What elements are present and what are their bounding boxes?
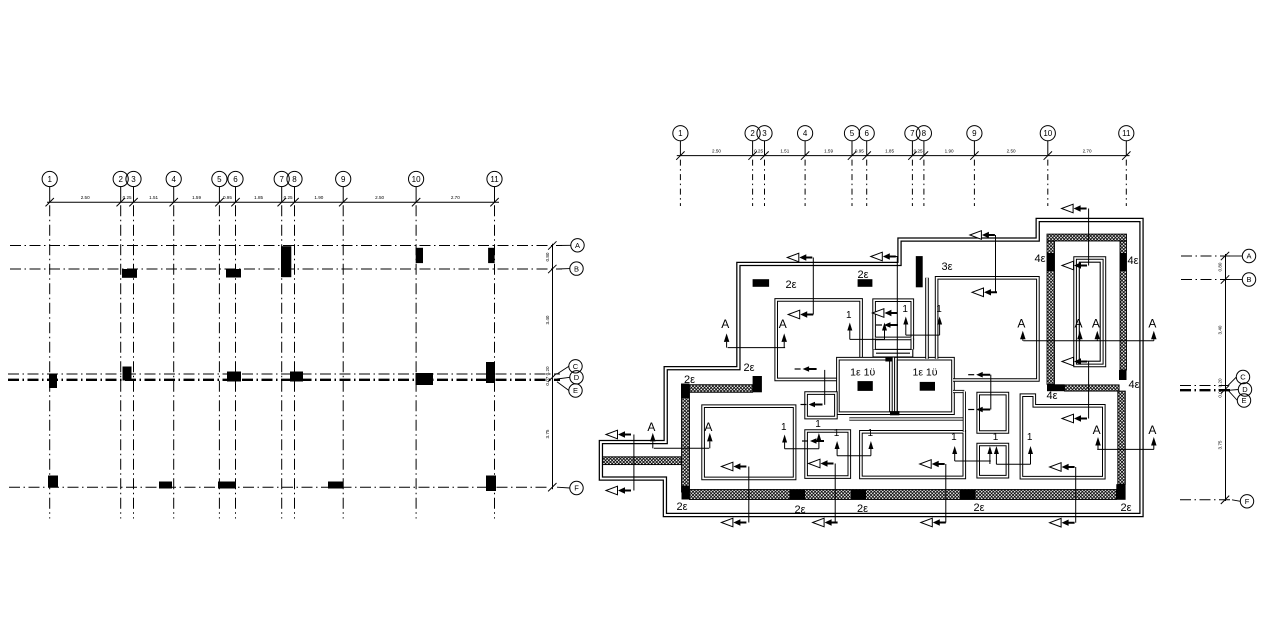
svg-text:3: 3 [762, 129, 767, 138]
wall small upper room (floor plan) [806, 393, 836, 418]
grid axis circle 2 (left plan) [113, 171, 128, 186]
grid axis circle 2 (floor plan) [745, 126, 760, 141]
section arrow stair bottom (floor plan) [1062, 357, 1074, 366]
svg-text:2.70: 2.70 [451, 195, 460, 200]
wall stacked room upper (floor plan) [978, 394, 1007, 432]
hatched wall stair bottom (floor plan) [1065, 385, 1120, 391]
svg-text:6: 6 [864, 129, 869, 138]
svg-text:1ε 1ϋ: 1ε 1ϋ [850, 367, 875, 379]
grid stub axis 3 (floor plan) [764, 160, 766, 206]
door up arrow extra (floor plan) [882, 323, 887, 331]
dimension tick axis 6 (left plan) [231, 198, 239, 206]
column axis2/3 row CDE (left plan) [123, 367, 132, 381]
column axis11 row CDE (left plan) [486, 362, 495, 383]
svg-text:0.95: 0.95 [855, 149, 864, 154]
svg-text:B: B [574, 264, 579, 273]
svg-text:2ε: 2ε [973, 502, 984, 514]
door arrow small a (floor plan) [803, 366, 817, 372]
svg-text:1: 1 [868, 428, 874, 439]
svg-text:1.85: 1.85 [254, 195, 263, 200]
door arrow small b (floor plan) [809, 402, 823, 408]
svg-text:D: D [1242, 385, 1248, 394]
dimension tick axis 6 (floor plan) [863, 151, 871, 159]
svg-text:1: 1 [781, 422, 787, 433]
section arrow stair top (floor plan) [1062, 261, 1074, 270]
grid axis circle 1 (floor plan) [673, 126, 688, 141]
grid axis circle 9 (left plan) [336, 171, 351, 186]
svg-text:1: 1 [902, 304, 908, 315]
hatched wall stair top (floor plan) [1047, 234, 1127, 241]
section line a1-a2 (floor plan) [812, 258, 814, 315]
door arrow small c (floor plan) [976, 372, 990, 378]
section arrow top step (floor plan) [871, 252, 883, 261]
svg-text:A: A [1093, 423, 1101, 437]
grid axis circle 4 (left plan) [166, 171, 181, 186]
section arrow below plan right (floor plan) [1050, 518, 1062, 527]
wall core stub left (floor plan) [872, 338, 876, 349]
svg-text:1.90: 1.90 [945, 149, 954, 154]
wall middle room (floor plan) [861, 432, 964, 478]
svg-text:5: 5 [217, 175, 222, 184]
svg-text:2ε: 2ε [676, 501, 687, 513]
grid axis circle 8 (floor plan) [916, 126, 931, 141]
wall big right room (floor plan) [937, 278, 1038, 380]
column axis4 row F (left plan) [159, 482, 172, 489]
svg-text:A: A [1246, 252, 1251, 261]
svg-text:A: A [1148, 423, 1156, 437]
svg-text:4: 4 [803, 129, 808, 138]
svg-text:2ε: 2ε [743, 362, 754, 374]
grid line D horizontal (left plan) [8, 379, 560, 381]
svg-text:1: 1 [936, 304, 942, 315]
hatched wall vertical left (floor plan) [682, 392, 690, 492]
section line stub (floor plan) [633, 435, 635, 491]
svg-text:1: 1 [815, 419, 821, 430]
column bottom band 2 (floor plan) [851, 490, 866, 500]
svg-text:5: 5 [850, 129, 855, 138]
grid row circle F (left plan) [557, 486, 570, 489]
column axis11 row A (left plan) [488, 248, 495, 263]
grid axis circle 10 (left plan) [409, 171, 424, 186]
grid axis circle 7 (left plan) [274, 171, 289, 186]
section A-A group stub (floor plan) [647, 420, 712, 448]
dimension tick axis 5 (left plan) [215, 198, 223, 206]
grid stub axis 7 (floor plan) [911, 160, 913, 206]
grid row circle E (floor plan) [1228, 390, 1237, 400]
svg-text:A: A [1017, 317, 1025, 331]
dimension tick axis 3 (left plan) [129, 198, 137, 206]
section line stair upper (floor plan) [1088, 209, 1090, 266]
grid line axis 2 vertical (left plan) [120, 205, 122, 518]
section arrow below plan left (floor plan) [721, 518, 733, 527]
grid line F horizontal (left plan) [9, 486, 549, 488]
column axis1 row CDE (left plan) [49, 374, 57, 388]
column axis11 row F (left plan) [486, 476, 496, 492]
svg-text:3ε: 3ε [941, 261, 952, 273]
wall bottom-right room (floor plan) [1021, 395, 1103, 478]
svg-text:0.07 0.20: 0.07 0.20 [1218, 378, 1223, 398]
svg-text:F: F [574, 484, 579, 493]
column axis7/8 rows A-B (left plan) [281, 246, 291, 277]
dimension tick axis 2 (left plan) [117, 198, 125, 206]
grid axis circle 1 (left plan) [42, 171, 57, 186]
wall bath room right 1 (floor plan) [896, 359, 953, 414]
grid stub axis 1 (floor plan) [679, 160, 681, 206]
svg-text:2ε: 2ε [794, 504, 805, 516]
svg-text:7: 7 [279, 175, 284, 184]
column bottom band 1 (floor plan) [790, 490, 805, 500]
column axis1 row F (left plan) [48, 476, 58, 488]
grid line A horizontal (left plan) [10, 245, 562, 247]
door line upper b (floor plan) [906, 334, 940, 336]
grid axis circle 7 (floor plan) [905, 126, 920, 141]
dimension tick (left plan right dim) [548, 265, 556, 273]
column axis2/3 row B (left plan) [122, 269, 137, 278]
section arrow above top wall left (floor plan) [787, 253, 799, 262]
grid line axis 3 vertical (left plan) [133, 205, 135, 518]
section arrow 3e corridor lower (floor plan) [972, 288, 984, 297]
svg-text:2.50: 2.50 [712, 149, 721, 154]
column axis9 row F (left plan) [328, 482, 343, 489]
section A-A group upper-left (floor plan) [721, 317, 787, 348]
svg-text:9: 9 [972, 129, 977, 138]
svg-text:6: 6 [233, 175, 238, 184]
column 3e tall (floor plan) [916, 256, 923, 287]
section arrow middle room (floor plan) [920, 460, 932, 469]
svg-text:3: 3 [131, 175, 136, 184]
svg-text:A: A [575, 241, 580, 250]
svg-text:10: 10 [1043, 129, 1052, 138]
grid row circle A (left plan) [557, 244, 571, 246]
grid axis circle 10 (floor plan) [1040, 126, 1055, 141]
door line low b (floor plan) [837, 455, 871, 457]
grid row circle B (left plan) [557, 268, 570, 270]
column 2e upper-left (floor plan) [753, 279, 770, 287]
column axis5 row F (left plan) [218, 482, 235, 489]
door line low d (floor plan) [955, 460, 991, 462]
svg-text:1ε 1ϋ: 1ε 1ϋ [912, 367, 937, 379]
door line upper a (floor plan) [850, 338, 885, 340]
section A-A group bottom-right (floor plan) [1093, 423, 1157, 449]
column bottom-right corner (floor plan) [1116, 484, 1125, 500]
svg-text:3.40: 3.40 [545, 315, 550, 324]
wall bath room left 1 (floor plan) [838, 359, 891, 414]
grid axis circle 4 (floor plan) [798, 126, 813, 141]
column bath corner a (floor plan) [885, 358, 892, 362]
wall room top connectors (floor plan) [953, 390, 964, 393]
svg-text:1.85: 1.85 [885, 149, 894, 154]
section arrow stub upper (floor plan) [606, 430, 618, 439]
grid row circle F (floor plan) [1232, 500, 1240, 502]
grid stub axis 11 (floor plan) [1125, 160, 1127, 206]
dimension tick (floor plan right dim) [1221, 275, 1229, 283]
column hatch wall top (floor plan) [681, 384, 690, 399]
section arrow bottom-right room (floor plan) [1062, 414, 1074, 423]
right dimension line (left plan) [552, 244, 554, 489]
hatched wall stair right (floor plan) [1120, 241, 1127, 370]
section line stair lower (floor plan) [1088, 362, 1090, 419]
wall corridor divider (floor plan) [925, 278, 929, 359]
stair flight rectangle (floor plan) [1075, 258, 1104, 365]
svg-text:2ε: 2ε [785, 279, 796, 291]
grid axis circle 11 (left plan) [487, 171, 502, 186]
wall kitchen small room (floor plan) [874, 300, 912, 338]
grid axis circle 5 (floor plan) [844, 126, 859, 141]
svg-text:9: 9 [341, 175, 346, 184]
svg-text:1.90: 1.90 [314, 195, 323, 200]
dimension tick axis 2 (floor plan) [748, 151, 756, 159]
svg-text:2ε: 2ε [857, 503, 868, 515]
svg-text:0.80: 0.80 [545, 252, 550, 261]
dimension tick axis 7 (left plan) [278, 198, 286, 206]
grid axis circle 11 (floor plan) [1119, 126, 1134, 141]
grid line axis 6 vertical (left plan) [235, 205, 237, 518]
wall stacked room lower (floor plan) [978, 445, 1007, 477]
svg-text:1.51: 1.51 [780, 149, 789, 154]
svg-text:3.75: 3.75 [545, 429, 550, 438]
dimension tick axis 7 (floor plan) [908, 151, 916, 159]
dimension tick axis 4 (floor plan) [801, 151, 809, 159]
dimension tick (left plan right dim) [548, 373, 556, 381]
grid line C horizontal (floor plan) [1180, 385, 1228, 387]
svg-text:4ε: 4ε [1128, 379, 1139, 391]
svg-text:E: E [573, 386, 578, 395]
column bottom band 3 (floor plan) [960, 490, 976, 500]
dimension tick axis 5 (floor plan) [848, 151, 856, 159]
wall duct box (floor plan) [873, 349, 913, 357]
svg-text:A: A [721, 317, 729, 331]
grid line axis 10 vertical (left plan) [415, 205, 417, 518]
grid line A horizontal (floor plan) [1181, 255, 1230, 257]
section line middle room (floor plan) [945, 464, 947, 523]
svg-text:4ε: 4ε [1127, 255, 1138, 267]
section arrow below plan mid-right (floor plan) [921, 518, 933, 527]
section arrow small lower room (floor plan) [809, 459, 821, 468]
hatched wall bottom band (floor plan) [690, 490, 1117, 500]
column axis5/6 row B (left plan) [226, 269, 241, 278]
dimension tick axis 8 (left plan) [290, 198, 298, 206]
door line second up (floor plan) [884, 330, 886, 339]
column axis10 row CDE (left plan) [416, 373, 434, 385]
svg-text:1: 1 [678, 129, 683, 138]
dimension tick axis 10 (left plan) [412, 198, 420, 206]
section line core mid (floor plan) [896, 257, 898, 413]
section line left room (floor plan) [748, 467, 750, 523]
door line low a (floor plan) [785, 448, 819, 450]
wall core stub right (floor plan) [910, 338, 914, 349]
svg-text:A: A [779, 317, 787, 331]
column axis7/8 row CDE (left plan) [290, 372, 303, 382]
svg-text:1: 1 [834, 428, 840, 439]
grid line B horizontal (floor plan) [1181, 279, 1230, 281]
section line core left (floor plan) [824, 370, 826, 405]
svg-text:1: 1 [993, 432, 999, 443]
section line 3e corridor (floor plan) [995, 235, 997, 292]
svg-text:B: B [1246, 275, 1251, 284]
top dimension line (floor plan) [677, 155, 1130, 157]
svg-text:11: 11 [490, 175, 499, 184]
top dimension line (left plan) [47, 201, 499, 203]
column stair top-right (floor plan) [1120, 253, 1127, 271]
svg-text:0.25: 0.25 [754, 149, 763, 154]
svg-text:A: A [647, 420, 655, 434]
grid stub axis 4 (floor plan) [804, 160, 806, 206]
grid line axis 4 vertical (left plan) [173, 205, 175, 518]
grid line axis 9 vertical (left plan) [342, 205, 344, 518]
svg-text:2: 2 [750, 129, 755, 138]
svg-text:2.50: 2.50 [375, 195, 384, 200]
section arrow lower-left room (floor plan) [721, 462, 733, 471]
svg-text:2ε: 2ε [1120, 502, 1131, 514]
column stair bottom-left (floor plan) [1047, 384, 1065, 391]
grid row circle A (floor plan) [1230, 255, 1242, 257]
svg-text:C: C [573, 362, 579, 371]
grid line axis 8 vertical (left plan) [294, 205, 296, 518]
column bath right (floor plan) [920, 382, 935, 391]
svg-text:2.50: 2.50 [1007, 149, 1016, 154]
dimension tick axis 4 (left plan) [170, 198, 178, 206]
grid axis circle 9 (floor plan) [967, 126, 982, 141]
grid row circle C (floor plan) [1228, 377, 1236, 386]
grid line D horizontal (floor plan) [1180, 389, 1230, 391]
svg-text:4ε: 4ε [1034, 253, 1045, 265]
column stair top-left (floor plan) [1047, 253, 1055, 271]
svg-text:A: A [1075, 317, 1083, 331]
hatched wall upper band (floor plan) [690, 385, 753, 393]
svg-text:8: 8 [922, 129, 927, 138]
column hatch band end (floor plan) [753, 376, 762, 392]
dimension tick axis 1 (left plan) [46, 198, 54, 206]
dimension tick axis 9 (left plan) [339, 198, 347, 206]
right dimension line (floor plan) [1225, 254, 1227, 501]
grid axis circle 5 (left plan) [212, 171, 227, 186]
grid stub axis 5 (floor plan) [851, 160, 853, 206]
svg-text:E: E [1241, 396, 1246, 405]
svg-text:3.75: 3.75 [1218, 440, 1223, 449]
svg-text:10: 10 [412, 175, 421, 184]
column bath left (floor plan) [858, 381, 873, 391]
grid axis circle 8 (left plan) [287, 171, 302, 186]
svg-text:2: 2 [118, 175, 123, 184]
section arrow 3e corridor upper (floor plan) [970, 231, 982, 240]
dimension tick (floor plan right dim) [1221, 496, 1229, 504]
outer boundary wall (floor plan) [601, 220, 1142, 515]
section line small room (floor plan) [834, 464, 836, 523]
door arrow small e (floor plan) [810, 438, 824, 444]
grid line C horizontal (left plan) [8, 373, 560, 375]
svg-text:F: F [1245, 497, 1250, 506]
grid line B horizontal (left plan) [10, 268, 562, 270]
column axis10 row A (left plan) [416, 248, 423, 263]
grid line axis 5 vertical (left plan) [218, 205, 220, 518]
dimension tick (left plan right dim) [548, 241, 556, 249]
section arrow below plan mid-left (floor plan) [813, 518, 825, 527]
section A-A group living (floor plan) [1017, 317, 1156, 341]
svg-text:0.95: 0.95 [223, 195, 232, 200]
svg-text:7: 7 [910, 129, 915, 138]
section arrow above stair (floor plan) [1062, 204, 1074, 213]
dimension tick axis 9 (floor plan) [970, 151, 978, 159]
dimension tick (floor plan right dim) [1221, 252, 1229, 260]
grid axis circle 3 (left plan) [126, 171, 141, 186]
door line low c (floor plan) [996, 463, 1030, 465]
svg-text:D: D [574, 373, 580, 382]
door arrow small d (floor plan) [884, 322, 898, 328]
grid stub axis 9 (floor plan) [973, 160, 975, 206]
svg-text:1: 1 [846, 310, 852, 321]
dimension tick axis 10 (floor plan) [1044, 151, 1052, 159]
grid row circle B (floor plan) [1230, 279, 1242, 281]
column 2e upper-mid (floor plan) [858, 279, 873, 287]
section arrow upper-left room (floor plan) [788, 310, 800, 319]
dimension tick axis 1 (floor plan) [676, 151, 684, 159]
svg-text:4: 4 [171, 175, 176, 184]
svg-text:1: 1 [951, 432, 957, 443]
dimension tick axis 11 (floor plan) [1122, 151, 1130, 159]
wall upper-left room (floor plan) [776, 300, 861, 380]
dimension tick axis 11 (left plan) [490, 198, 498, 206]
dimension tick axis 8 (floor plan) [920, 151, 928, 159]
column stair bottom-right (floor plan) [1119, 370, 1127, 380]
dimension tick axis 3 (floor plan) [760, 151, 768, 159]
grid axis circle 6 (left plan) [228, 171, 243, 186]
grid line axis 7 vertical (left plan) [281, 205, 283, 518]
grid row circle D (floor plan) [1230, 389, 1238, 392]
hatched wall stub band (floor plan) [603, 457, 682, 465]
grid line F horizontal (floor plan) [1180, 499, 1232, 501]
grid stub axis 6 (floor plan) [866, 160, 868, 206]
svg-text:4ε: 4ε [1046, 390, 1057, 402]
svg-text:8: 8 [292, 175, 297, 184]
dimension tick (left plan right dim) [548, 483, 556, 491]
svg-text:2ε: 2ε [857, 269, 868, 281]
grid row circle D (left plan) [557, 377, 570, 379]
grid row circle C (left plan) [557, 366, 569, 374]
column hatch wall bottom (floor plan) [682, 486, 690, 500]
svg-text:1: 1 [47, 175, 52, 184]
svg-text:A: A [1092, 317, 1100, 331]
grid stub axis 8 (floor plan) [923, 160, 925, 206]
svg-text:1.59: 1.59 [192, 195, 201, 200]
section arrow kitchen (floor plan) [872, 309, 884, 318]
svg-text:1: 1 [1027, 432, 1033, 443]
grid line axis 1 vertical (left plan) [49, 205, 51, 518]
section line br room (floor plan) [1075, 467, 1077, 523]
grid line axis 11 vertical (left plan) [494, 205, 496, 518]
section line core right (floor plan) [990, 375, 992, 410]
grid stub axis 10 (floor plan) [1047, 160, 1049, 206]
dimension tick (floor plan right dim) [1221, 385, 1229, 393]
svg-text:C: C [1240, 373, 1246, 382]
svg-text:0.80: 0.80 [1218, 262, 1223, 271]
svg-text:1.51: 1.51 [149, 195, 158, 200]
svg-text:A: A [1148, 317, 1156, 331]
svg-text:0.07 0.20: 0.07 0.20 [545, 366, 550, 386]
wall corridor below baths (floor plan) [849, 417, 963, 420]
section arrow br room lower (floor plan) [1050, 463, 1062, 472]
column axis5/6 row CDE (left plan) [227, 372, 241, 382]
svg-text:A: A [704, 420, 712, 434]
hatched wall right lower (floor plan) [1118, 391, 1126, 484]
door arrow small c2 (floor plan) [976, 407, 990, 413]
grid axis circle 3 (floor plan) [757, 126, 772, 141]
svg-text:11: 11 [1122, 129, 1131, 138]
wall lower-left big room (floor plan) [703, 406, 795, 478]
section line a3 tail (floor plan) [884, 256, 898, 258]
svg-text:0.25: 0.25 [123, 195, 132, 200]
svg-text:3.40: 3.40 [1218, 325, 1223, 334]
svg-text:2.50: 2.50 [81, 195, 90, 200]
